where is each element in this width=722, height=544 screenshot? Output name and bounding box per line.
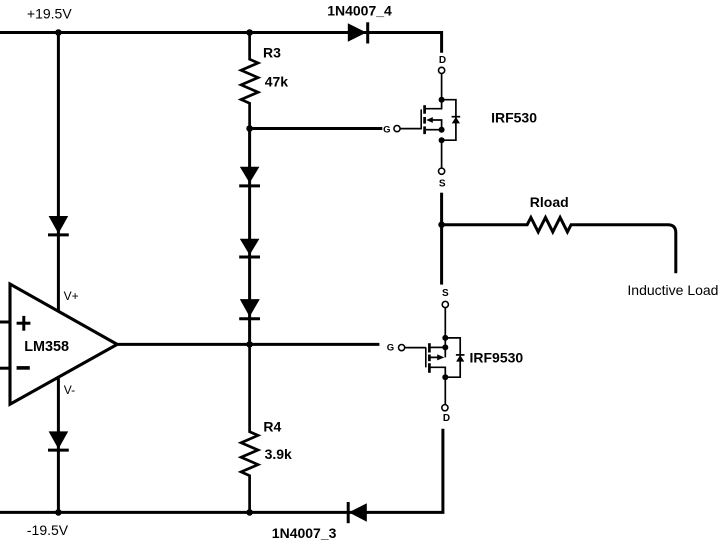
svg-text:47k: 47k	[265, 73, 289, 89]
drain stub	[426, 100, 442, 109]
op-amp plus input mark	[17, 316, 31, 331]
channel bar segments	[423, 105, 426, 114]
op-amp U1 LM358 triangle body	[10, 284, 117, 404]
diode 1N4007_4 (series in top rail, pointing right)	[348, 22, 368, 43]
resistor R4 (3.9k) vertical with leads	[241, 344, 258, 512]
node: load junction (source of IRF530 / source of IRF9530 / Rload)	[438, 221, 445, 228]
node: bottom rail / left column junction	[55, 509, 62, 516]
svg-text:D: D	[439, 55, 446, 66]
svg-text:D: D	[443, 413, 450, 424]
gate bar	[425, 347, 427, 367]
svg-text:S: S	[442, 288, 449, 299]
wire: middle column through three diodes down to op-amp output node	[248, 129, 251, 345]
op-amp non-inverting input stub wire	[0, 321, 10, 324]
thin drain lead	[441, 74, 443, 100]
wire: top +19.5V rail from left edge to IRF530 drain corner	[0, 33, 442, 53]
transistor Q2 IRF9530 (P-channel MOSFET)	[387, 288, 465, 424]
node: op-amp output / diode chain / R4 junction	[246, 341, 253, 348]
svg-text:V+: V+	[64, 289, 79, 303]
svg-text:R4: R4	[263, 419, 281, 435]
svg-text:Inductive Load: Inductive Load	[627, 282, 718, 298]
svg-text:V-: V-	[64, 383, 75, 397]
pin circle D	[442, 405, 448, 411]
node: top rail / left column junction	[55, 29, 62, 36]
node: body/source junction dot	[439, 137, 445, 143]
body diode (pointing up)	[456, 355, 464, 362]
op-amp inverting input stub wire	[0, 367, 10, 370]
node: bottom rail / R4 junction	[246, 509, 253, 516]
svg-text:+19.5V: +19.5V	[27, 6, 72, 22]
diode D1 (left column upper, pointing down)	[48, 216, 69, 235]
thin drain lead	[444, 377, 446, 404]
body diode branch	[442, 100, 456, 141]
thin gate lead	[405, 347, 426, 349]
node: drain/body junction dot	[442, 374, 448, 380]
pin circle S	[442, 301, 448, 307]
pin circle G	[399, 345, 405, 351]
thin gate lead	[400, 128, 421, 130]
gate bar	[420, 109, 422, 129]
body stub with arrow (pointing right)	[430, 347, 446, 357]
pin circle D	[439, 67, 445, 73]
wire: IRF530 gate wire from R3 junction to gate pin	[250, 127, 383, 130]
svg-text:LM358: LM358	[24, 339, 69, 355]
svg-text:R3: R3	[263, 45, 281, 61]
op-amp minus input mark	[17, 366, 30, 370]
wire: left column op-amp V- pin down to bottom rail	[57, 376, 60, 512]
wire: IRF9530 drain down joining bottom rail	[0, 429, 443, 513]
resistor Rload (horizontal) with wire to inductive load drop	[442, 218, 676, 274]
node: drain dot	[439, 97, 445, 103]
svg-text:3.9k: 3.9k	[265, 446, 292, 462]
svg-text:Rload: Rload	[530, 194, 569, 210]
thin source lead	[444, 308, 446, 338]
diode 1N4007_3 (series in bottom rail, pointing left)	[348, 502, 367, 523]
drain stub	[430, 367, 446, 377]
svg-text:IRF9530: IRF9530	[470, 350, 524, 366]
svg-text:S: S	[439, 179, 446, 190]
source stub	[430, 346, 446, 348]
node: R3 bottom / IRF530 gate junction	[246, 125, 253, 132]
body diode (pointing up)	[452, 117, 460, 124]
channel bar segments	[428, 343, 431, 352]
pin circle G	[394, 126, 400, 132]
svg-text:-19.5V: -19.5V	[27, 522, 69, 538]
node: source stub dot	[442, 344, 448, 350]
pin circle S	[439, 168, 445, 174]
wire: IRF530 source down to load junction	[440, 193, 443, 225]
node: top rail / R3 junction	[246, 29, 253, 36]
svg-text:G: G	[383, 124, 390, 135]
svg-text:G: G	[387, 343, 394, 354]
body diode branch	[445, 338, 460, 377]
body stub with arrow	[432, 120, 442, 130]
source stub	[426, 129, 442, 131]
wire: op-amp output to IRF9530 gate pin	[116, 343, 379, 346]
resistor R3 (47k) vertical with leads	[241, 33, 258, 129]
thin link to source stub	[444, 338, 446, 348]
diode D3 (middle column, pointing down)	[239, 167, 260, 186]
diode D4 (middle column, pointing down)	[239, 239, 260, 257]
wire: load junction down to IRF9530 source pin	[440, 225, 443, 285]
svg-text:IRF530: IRF530	[491, 110, 537, 126]
diode D2 (left column lower, pointing down)	[48, 431, 69, 450]
node: body/source junction dot	[442, 335, 448, 341]
svg-text:1N4007_4: 1N4007_4	[327, 2, 392, 18]
thin source lead	[441, 140, 443, 168]
node: source dot	[439, 127, 445, 133]
svg-text:1N4007_3: 1N4007_3	[272, 525, 337, 541]
transistor Q1 IRF530 (N-channel MOSFET)	[383, 55, 460, 189]
wire: left column from top rail down to op-amp V+ pin	[57, 33, 60, 314]
diode D5 (middle column, pointing down)	[239, 299, 260, 319]
